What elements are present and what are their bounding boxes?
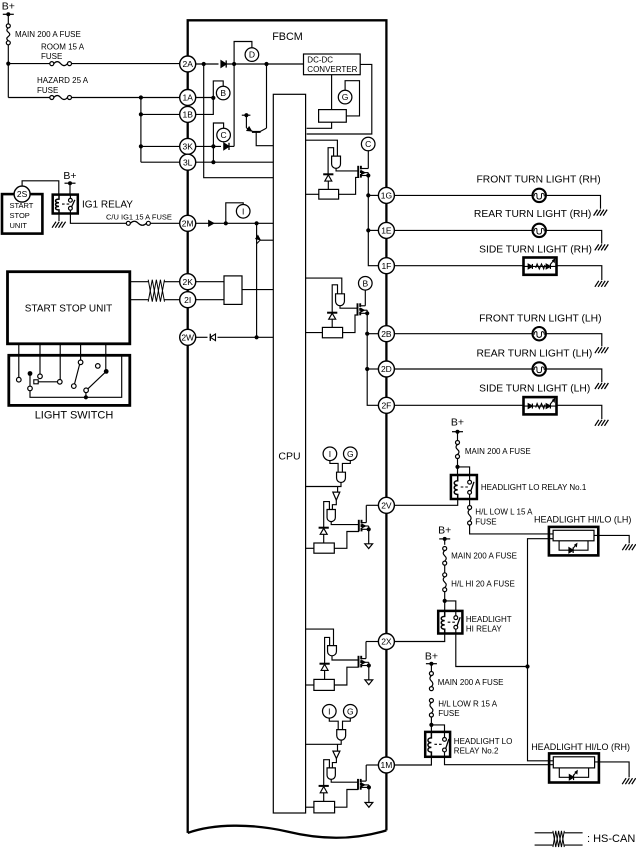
fuse ROOM 15 A xyxy=(41,42,85,65)
svg-text:MAIN 200 A FUSE: MAIN 200 A FUSE xyxy=(15,30,81,39)
wire I to and-gate xyxy=(330,461,338,473)
label HEADLIGHT HI/LO (LH) xyxy=(534,515,631,525)
wire hook to I xyxy=(226,203,243,224)
wire branch to switch No.1 xyxy=(458,467,470,475)
svg-text:2F: 2F xyxy=(381,400,391,410)
svg-text:START STOP UNIT: START STOP UNIT xyxy=(25,304,112,315)
wire 3K line xyxy=(196,144,221,148)
connector 2B xyxy=(378,326,394,342)
CAN transceiver block xyxy=(224,276,242,305)
label HEADLIGHT LO RELAY No.1 xyxy=(481,483,587,492)
connector 2M xyxy=(180,215,196,231)
resistor (driver 5) xyxy=(314,801,335,813)
wire fuse to HI relay xyxy=(443,592,447,611)
svg-text:FUSE: FUSE xyxy=(41,52,62,61)
svg-text:C/U IG1 15 A FUSE: C/U IG1 15 A FUSE xyxy=(106,213,172,222)
svg-text:B+: B+ xyxy=(63,170,76,182)
svg-text:H/L LOW L 15 A: H/L LOW L 15 A xyxy=(475,508,533,517)
svg-text:H/L LOW R 15 A: H/L LOW R 15 A xyxy=(438,699,498,708)
wire hook zener to gate-1 xyxy=(328,148,334,175)
ground (front RH) xyxy=(594,210,608,216)
svg-text:HEADLIGHT LO RELAY No.1: HEADLIGHT LO RELAY No.1 xyxy=(481,483,587,492)
svg-text:I: I xyxy=(329,449,331,459)
svg-text:C: C xyxy=(365,139,371,149)
label HEADLIGHT LO RELAY No.2 xyxy=(454,737,513,756)
label FRONT TURN LIGHT (LH) xyxy=(479,314,601,325)
wire drain to node C xyxy=(367,151,369,169)
wire switch stem 5 xyxy=(105,344,107,370)
wire CPU to resistor-4 xyxy=(306,684,314,686)
svg-text:FUSE: FUSE xyxy=(37,86,58,95)
fuse MAIN 200 A (top left) xyxy=(6,24,81,45)
connector 2W wire xyxy=(196,336,208,338)
svg-text:1B: 1B xyxy=(182,110,193,120)
svg-text:G: G xyxy=(347,449,354,459)
fuse C/U IG1 15 A xyxy=(106,213,172,226)
wire LH headlight to ground xyxy=(594,535,629,543)
connector 2K xyxy=(180,274,196,290)
svg-text:B: B xyxy=(362,278,368,288)
svg-text:B+: B+ xyxy=(2,1,15,13)
wire 2S to IG1 relay coil xyxy=(22,181,59,195)
svg-text:2X: 2X xyxy=(381,637,392,647)
wire IG1 coil to ground xyxy=(58,214,60,222)
contact G xyxy=(96,364,101,369)
logic gate (driver 1) xyxy=(332,156,341,168)
wire resistor-2 to gate xyxy=(343,315,359,333)
svg-text:HAZARD 25 A: HAZARD 25 A xyxy=(37,76,89,85)
fuse MAIN 200 A (LO relay No.1) xyxy=(456,441,531,459)
wire HAZARD fuse line to 1A xyxy=(8,95,179,99)
svg-text:G: G xyxy=(347,706,354,716)
wire source to ground-3 xyxy=(368,529,370,543)
wire buffer to gate B xyxy=(332,500,336,509)
box CPU xyxy=(273,94,305,813)
diode (3K line) xyxy=(224,143,229,150)
wire hook to D xyxy=(234,42,252,65)
wire bulb to ground 5 xyxy=(546,369,602,382)
ground triangle (driver 4) xyxy=(365,680,373,685)
svg-text:G: G xyxy=(342,92,349,102)
MOSFET (driver 2) xyxy=(358,303,370,315)
wire 1F to LED unit xyxy=(394,265,523,267)
connector 2F xyxy=(378,397,394,413)
svg-text:REAR TURN LIGHT (LH): REAR TURN LIGHT (LH) xyxy=(477,349,593,360)
node D xyxy=(245,48,259,62)
wire diode to CPU xyxy=(218,335,274,339)
wire branch to switch No.2 xyxy=(431,725,444,732)
wire hazard branch bus xyxy=(139,98,143,163)
relay HEADLIGHT LO No.2 xyxy=(425,732,450,757)
svg-text:B+: B+ xyxy=(451,417,464,429)
wire HI switch to junction xyxy=(456,634,530,669)
resistor (driver 4) xyxy=(314,679,334,690)
connector 1G xyxy=(378,187,394,203)
label HEADLIGHT HI/LO (RH) xyxy=(531,742,630,752)
wire CPU join driver 3 xyxy=(306,483,341,493)
wire 2M branch down xyxy=(256,223,258,337)
wire 1E to bulb xyxy=(394,229,532,231)
legend HS-CAN twisted pair xyxy=(535,831,583,847)
wire G to and-gate xyxy=(342,461,350,473)
node B (driver 2) xyxy=(359,277,373,291)
wire 3K diode out xyxy=(229,145,234,147)
wire switch stem 4 xyxy=(80,344,82,360)
ground (side RH) xyxy=(595,281,609,287)
wire resistor-1 to gate xyxy=(339,177,360,194)
wire 2K to transceiver xyxy=(196,281,224,283)
wire source to ground-5 xyxy=(368,787,370,802)
svg-text:SIDE TURN LIGHT (RH): SIDE TURN LIGHT (RH) xyxy=(479,244,592,255)
ground (rear RH) xyxy=(595,244,609,250)
contact D xyxy=(58,380,63,385)
wire branch to switch (HI) xyxy=(445,601,456,611)
fuse MAIN 200 A (LO relay No.2) xyxy=(429,672,503,691)
fuse HAZARD 25 A xyxy=(37,76,89,99)
label LIGHT SWITCH xyxy=(35,410,114,422)
svg-text:B+: B+ xyxy=(438,525,451,537)
connector 1F xyxy=(378,258,394,274)
wire LED to ground 6 xyxy=(557,405,602,419)
zener diode (driver 1) xyxy=(323,174,333,189)
module FBCM box xyxy=(188,20,387,837)
wire CPU to gate-2 input xyxy=(306,278,342,294)
buffer (driver 3) xyxy=(333,492,340,500)
connector 2X xyxy=(378,634,394,650)
fuse MAIN 200 A (HI relay) xyxy=(443,547,517,566)
wire gate-2 to MOSFET gate xyxy=(340,306,358,309)
ground (LH headlight) xyxy=(622,544,636,550)
wire DC-DC out right to CPU xyxy=(307,64,372,134)
wire RH headlight to ground xyxy=(595,762,630,778)
label SIDE TURN LIGHT (RH) xyxy=(479,244,592,255)
wire fuse to relay No.1 xyxy=(455,459,459,475)
svg-text:I: I xyxy=(242,206,244,216)
svg-text:2A: 2A xyxy=(182,59,193,69)
wire 3K to 3L tie xyxy=(212,146,214,162)
svg-text:D: D xyxy=(249,50,255,60)
wire hook to B xyxy=(213,81,223,98)
svg-text:RELAY No.2: RELAY No.2 xyxy=(454,747,499,756)
wire bulb to ground 1 xyxy=(546,195,601,208)
MOSFET (driver 5) xyxy=(358,779,371,790)
wire CPU to gate-4 xyxy=(306,629,334,646)
connector 2S xyxy=(14,186,30,202)
logic gate A (driver 3) xyxy=(337,472,346,482)
svg-text:C: C xyxy=(221,130,227,140)
battery B+ feed (HI relay) xyxy=(438,525,451,545)
resistor (driver 2) xyxy=(322,327,342,337)
svg-text:SIDE TURN LIGHT (LH): SIDE TURN LIGHT (LH) xyxy=(479,384,590,395)
svg-text:I: I xyxy=(328,706,330,716)
wire HI junction down to RH xyxy=(528,667,554,761)
svg-text:UNIT: UNIT xyxy=(10,221,28,230)
box START STOP UNIT xyxy=(8,272,130,344)
contact A xyxy=(17,377,22,382)
wire B+ rail down xyxy=(6,45,10,98)
wire 3L line to CPU xyxy=(196,160,274,164)
wire 2F to LED unit xyxy=(394,404,523,406)
wire hook zener driver 5 xyxy=(324,760,330,786)
diode (2W line) xyxy=(210,334,215,341)
transistor (2A monitor) xyxy=(246,64,273,146)
wire 2A to CPU (power) xyxy=(204,64,274,178)
contact square C xyxy=(34,380,38,384)
svg-text:FUSE: FUSE xyxy=(438,709,459,718)
svg-text:FUSE: FUSE xyxy=(475,517,496,526)
svg-text:HEADLIGHT LO: HEADLIGHT LO xyxy=(454,737,513,746)
contact B xyxy=(38,374,43,379)
connector 1A xyxy=(180,90,196,106)
bulb FRONT TURN LIGHT RH xyxy=(533,189,546,202)
svg-text:2B: 2B xyxy=(381,329,392,339)
svg-text:1F: 1F xyxy=(381,261,391,271)
wire drain to 2V xyxy=(366,505,378,522)
wire relay No.2 coil to 1M xyxy=(394,757,431,765)
resistor (DC-DC output) xyxy=(319,110,347,123)
svg-text:2M: 2M xyxy=(182,218,194,228)
wire switch No.2 to RH headlight xyxy=(445,757,554,765)
connector 1E xyxy=(378,222,394,238)
wire to 1E xyxy=(368,229,378,231)
svg-text:MAIN 200 A FUSE: MAIN 200 A FUSE xyxy=(451,552,517,561)
wire gate to MOSFET-5 xyxy=(331,779,358,782)
svg-text:B+: B+ xyxy=(425,650,438,662)
connector 1M xyxy=(378,757,394,773)
MOSFET (driver 3) xyxy=(359,520,371,532)
switch blade E-F xyxy=(72,360,83,388)
label CPU xyxy=(278,451,300,463)
wire output bus 1G/1E/1F xyxy=(366,176,378,266)
svg-text:2W: 2W xyxy=(181,332,194,342)
ground (IG1 relay) xyxy=(52,222,66,228)
logic gate (driver 4) xyxy=(328,646,337,656)
wire fuse to relay No.2 xyxy=(429,717,433,732)
wire CPU to resistor-2 xyxy=(306,332,323,334)
svg-text:1M: 1M xyxy=(380,760,392,770)
relay HEADLIGHT LO No.1 xyxy=(451,475,477,499)
relay HEADLIGHT HI xyxy=(438,611,462,634)
label SIDE TURN LIGHT (LH) xyxy=(479,384,590,395)
node junction 1A/1B xyxy=(211,96,215,100)
wire 2D to bulb xyxy=(394,368,532,370)
wire resistor-4 to gate xyxy=(334,667,358,685)
svg-text:3K: 3K xyxy=(182,142,193,152)
label REAR TURN LIGHT (RH) xyxy=(474,209,591,220)
wire relay coil to 2V xyxy=(394,499,457,505)
wire LED to ground 3 xyxy=(557,266,602,280)
logic gate A (driver 5) xyxy=(337,730,346,741)
svg-text:FRONT TURN LIGHT (LH): FRONT TURN LIGHT (LH) xyxy=(479,314,601,325)
wire branch to 1B xyxy=(141,113,180,115)
wire switch stem 1 xyxy=(18,344,20,377)
svg-text:HEADLIGHT: HEADLIGHT xyxy=(466,615,512,624)
zener diode (driver 3) xyxy=(319,528,329,543)
DC-DC converter box xyxy=(304,54,361,75)
wire hook to G (DC-DC) xyxy=(345,81,359,116)
svg-text:1G: 1G xyxy=(381,191,392,201)
MOSFET (driver 1) xyxy=(358,166,370,178)
legend HS-CAN label xyxy=(587,833,635,845)
connector 3K xyxy=(180,138,196,154)
connector 2W xyxy=(180,329,196,345)
wire hook to C xyxy=(213,123,223,146)
wire CPU join driver 5 xyxy=(306,740,342,751)
HEADLIGHT HI/LO (RH) unit xyxy=(549,753,599,782)
svg-text:1E: 1E xyxy=(381,226,392,236)
logic gate B (driver 3) xyxy=(327,510,335,522)
wire twist to 2K xyxy=(165,281,180,283)
svg-text:STOP: STOP xyxy=(10,211,30,220)
wire hook zener driver 3 xyxy=(324,502,330,528)
HEADLIGHT HI/LO (LH) unit xyxy=(549,527,598,556)
label REAR TURN LIGHT (LH) xyxy=(477,349,593,360)
buffer (driver 5) xyxy=(333,751,340,758)
wire transceiver to CPU xyxy=(242,289,273,291)
node G (DC-DC) xyxy=(338,90,352,104)
battery B+ feed (top left) xyxy=(2,1,15,24)
switch blade H-J xyxy=(84,369,109,393)
wire 1A line xyxy=(196,97,214,99)
ground (RH headlight) xyxy=(622,778,636,784)
connector 2V xyxy=(378,497,394,513)
svg-text:HEADLIGHT HI/LO (RH): HEADLIGHT HI/LO (RH) xyxy=(531,742,630,752)
wire switch stem 2 xyxy=(39,344,41,374)
svg-text:3L: 3L xyxy=(183,157,193,167)
wire branch to 3K xyxy=(141,145,180,147)
arrow branch to CPU xyxy=(256,235,274,243)
node I (driver 5) xyxy=(323,705,337,719)
wire 2I to transceiver xyxy=(196,299,224,301)
svg-text:HI RELAY: HI RELAY xyxy=(466,625,503,634)
node B xyxy=(216,86,230,100)
wire resistor to CPU supply xyxy=(307,122,332,128)
node I (driver 3) xyxy=(323,447,337,461)
svg-text:2K: 2K xyxy=(182,277,193,287)
wire hook zener driver 4 xyxy=(325,637,330,663)
label FRONT TURN LIGHT (RH) xyxy=(477,174,601,185)
wire gate to MOSFET-3 xyxy=(331,522,359,525)
svg-text:CPU: CPU xyxy=(278,451,300,463)
connector 1B xyxy=(180,106,196,122)
zener diode (driver 2) xyxy=(327,313,337,328)
wire CPU to resistor-5 xyxy=(306,806,314,808)
wire source to ground-4 xyxy=(368,666,370,680)
svg-text:2V: 2V xyxy=(381,500,392,510)
logic gate B (driver 5) xyxy=(327,768,335,779)
svg-text:IG1 RELAY: IG1 RELAY xyxy=(82,200,133,211)
bulb REAR TURN LIGHT RH xyxy=(533,224,546,237)
bulb REAR TURN LIGHT LH xyxy=(533,362,546,375)
wire resistor-5 to gate xyxy=(335,790,359,808)
node G (driver 5) xyxy=(344,705,358,719)
diode (2A line) xyxy=(221,60,226,67)
svg-text:H/L HI 20 A FUSE: H/L HI 20 A FUSE xyxy=(451,579,515,588)
wire 2M line xyxy=(196,221,274,225)
ground (rear LH) xyxy=(595,383,609,389)
fuse H/L LOW R 15 A xyxy=(429,699,497,719)
svg-text:ROOM 15 A: ROOM 15 A xyxy=(41,42,85,51)
wire ROOM fuse line to 2A xyxy=(8,63,179,65)
wire 2A line to DC-DC xyxy=(226,62,303,66)
wire CAN high to twist xyxy=(130,281,148,283)
wire HI feed to LH headlight xyxy=(528,539,554,667)
relay IG1 xyxy=(53,195,134,214)
connector 2D xyxy=(378,361,394,377)
wire HI coil to 2X xyxy=(394,634,444,642)
wire CAN low to twist xyxy=(130,299,148,301)
wire bulb to ground 4 xyxy=(546,334,602,347)
MOSFET (driver 4) xyxy=(359,656,371,668)
wire fuse to LH headlight low xyxy=(470,525,553,534)
wire 1G to bulb xyxy=(394,194,532,196)
svg-text:2S: 2S xyxy=(17,189,28,199)
wire 2A line xyxy=(196,62,219,66)
resistor (driver 3) xyxy=(314,543,334,553)
bulb FRONT TURN LIGHT LH xyxy=(533,327,546,340)
battery B+ feed (LO relay No.1) xyxy=(451,417,464,441)
wire C to D xyxy=(38,381,57,383)
LED unit SIDE TURN RH xyxy=(524,258,557,275)
wire drain to 1M xyxy=(366,765,378,781)
wire output bus 2B/2D/2F xyxy=(365,313,378,405)
svg-text:B: B xyxy=(220,88,226,98)
LED unit SIDE TURN LH xyxy=(524,397,557,414)
twisted pair HS-CAN xyxy=(148,280,164,302)
wire gate to MOSFET-4 xyxy=(332,656,359,660)
node G (driver 3) xyxy=(344,447,358,461)
fuse H/L HI 20 A xyxy=(443,573,515,592)
wire DC-DC out bottom xyxy=(331,75,333,110)
svg-text:MAIN 200 A FUSE: MAIN 200 A FUSE xyxy=(465,447,531,456)
wire drain to 2X xyxy=(366,642,378,659)
node I (2M) xyxy=(236,205,250,219)
ground (side LH) xyxy=(595,420,609,426)
svg-text:1A: 1A xyxy=(182,93,193,103)
logic gate (driver 2) xyxy=(336,294,345,306)
connector 2I xyxy=(180,292,196,308)
wire CPU to resistor-3 xyxy=(306,547,314,549)
wire gate-1 to MOSFET gate xyxy=(336,168,358,171)
wire twist to 2I xyxy=(165,299,180,301)
battery B+ feed (LO relay No.2) xyxy=(425,650,438,671)
wire buffer to gate B5 xyxy=(332,759,336,768)
connector 2A xyxy=(180,56,196,72)
box LIGHT SWITCH xyxy=(9,355,130,405)
label HEADLIGHT HI RELAY xyxy=(466,615,512,634)
ground (front LH) xyxy=(595,347,609,353)
arrow (2M line) xyxy=(209,221,214,226)
svg-text:2D: 2D xyxy=(381,364,392,374)
wire G to and-gate 5 xyxy=(343,718,351,730)
wire to 2D xyxy=(367,368,378,370)
svg-text:FRONT TURN LIGHT (RH): FRONT TURN LIGHT (RH) xyxy=(477,174,601,185)
wire fuse to 2M xyxy=(151,222,180,224)
wire switch No.1 to fuse xyxy=(469,499,471,505)
ground triangle (driver 5) xyxy=(365,803,373,808)
ground triangle (driver 3) xyxy=(365,544,373,549)
wire I to and-gate 5 xyxy=(329,718,338,730)
wire switch common bus xyxy=(30,355,122,399)
svg-text:MAIN 200 A FUSE: MAIN 200 A FUSE xyxy=(438,678,504,687)
wire resistor-3 to gate xyxy=(334,532,359,549)
svg-text:CONVERTER: CONVERTER xyxy=(307,65,357,74)
fuse H/L LOW L 15 A xyxy=(468,506,534,527)
wire switch stem 3 xyxy=(59,344,61,380)
wire IG1 switch to fuse xyxy=(70,214,126,224)
zener diode (driver 4) xyxy=(320,664,330,680)
svg-text:HEADLIGHT HI/LO (LH): HEADLIGHT HI/LO (LH) xyxy=(534,515,631,525)
